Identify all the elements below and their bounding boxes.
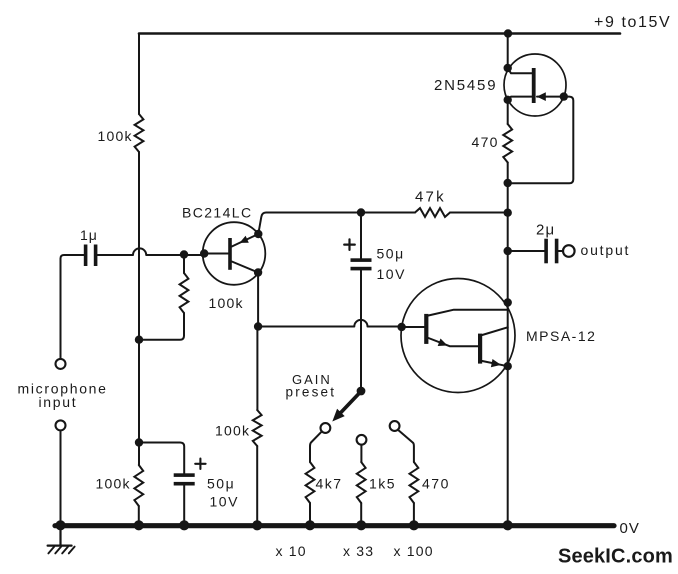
svg-text:2N5459: 2N5459 xyxy=(434,77,497,94)
svg-text:+9 to15V: +9 to15V xyxy=(594,14,671,31)
2N5459 gate lead with arrow xyxy=(537,96,564,98)
svg-text:1k5: 1k5 xyxy=(369,476,396,492)
net +9to15V power rail wire xyxy=(139,32,620,35)
wire bottom-left resistor to 0V rail xyxy=(138,506,140,523)
svg-text:10V: 10V xyxy=(377,266,406,282)
svg-text:100k: 100k xyxy=(98,128,133,144)
transistor BC214LC base bar xyxy=(228,238,232,270)
BC214LC collector lead xyxy=(232,262,258,273)
MPSA-12 Q1 emitter lead with arrow xyxy=(428,338,478,346)
wire 50u bottom lead down to preset wiper xyxy=(360,270,362,387)
svg-text:2μ: 2μ xyxy=(536,222,555,239)
resistor 1k5 xyxy=(357,462,366,503)
ground chassis symbol xyxy=(48,526,75,554)
capacitor 50u upper plates xyxy=(351,258,372,262)
wire rail drop to JFET drain xyxy=(507,34,509,69)
svg-text:100k: 100k xyxy=(209,295,244,311)
wire BC214LC collector down to node xyxy=(257,273,259,327)
capacitor 50u 10V (upper) top lead xyxy=(360,213,362,259)
svg-text:preset: preset xyxy=(286,385,337,400)
capacitor 2u output plates xyxy=(544,239,548,264)
junction preset wiper xyxy=(357,387,366,396)
terminal tap x33 xyxy=(357,435,367,445)
MPSA-12 Q2 emitter lead with arrow xyxy=(482,361,508,366)
wire C1 to BC214LC base (hop over bus) xyxy=(97,248,204,255)
resistor 470 (x100 tap) xyxy=(410,462,419,503)
svg-text:470: 470 xyxy=(472,134,499,150)
svg-text:MPSA-12: MPSA-12 xyxy=(526,328,596,344)
resistor 47k xyxy=(415,208,450,217)
svg-text:input: input xyxy=(39,394,78,410)
wire cap to output terminal xyxy=(558,250,562,252)
transistor MPSA-12 darlington body circle xyxy=(401,279,515,393)
svg-text:50μ: 50μ xyxy=(207,476,235,492)
wire 100k to 0V xyxy=(256,446,258,523)
svg-text:470: 470 xyxy=(422,476,450,492)
wire mic top terminal to C1 xyxy=(61,255,84,359)
wire MPSA-12 base lead xyxy=(402,326,425,328)
wire BC214LC base lead xyxy=(204,253,228,255)
resistor 4k7 xyxy=(306,462,315,503)
wire 1k5 to 0V xyxy=(360,503,362,523)
wire 470 to 0V xyxy=(413,503,415,523)
svg-text:x 33: x 33 xyxy=(343,543,374,559)
svg-text:4k7: 4k7 xyxy=(316,476,343,492)
wire node to 47k xyxy=(361,212,415,214)
MPSA-12 Q2 base bar xyxy=(478,334,482,364)
svg-text:1μ: 1μ xyxy=(80,227,98,243)
terminal output xyxy=(563,245,575,257)
svg-text:100k: 100k xyxy=(96,476,131,492)
net 0V ground rail xyxy=(55,523,614,528)
svg-text:50μ: 50μ xyxy=(377,246,405,262)
wire left bus to 50u (lower) xyxy=(139,443,184,474)
wire left vertical bus down to bottom resistor xyxy=(138,152,140,465)
svg-text:x 10: x 10 xyxy=(276,543,307,559)
wire BC214LC emitter up to feedback node xyxy=(258,213,361,235)
transistor 2N5459 JFET body circle xyxy=(504,54,566,116)
wire tap x33 to 1k5 xyxy=(360,445,362,462)
transistor Q1 BC214LC body circle xyxy=(203,222,266,285)
svg-text:0V: 0V xyxy=(620,520,640,537)
svg-text:100k: 100k xyxy=(215,423,250,439)
resistor 100k (bottom left) xyxy=(134,465,143,506)
terminal tap x100 xyxy=(390,421,400,431)
terminal tap x10 xyxy=(321,423,331,433)
wire node to MPSA-12 base (hop over preset line) xyxy=(258,320,402,327)
MPSA-12 Q2 collector lead xyxy=(482,327,508,335)
wire tap x100 to 470 xyxy=(398,430,414,462)
wire left rail drop to 100k R-top xyxy=(138,34,140,115)
resistor 100k (top left) xyxy=(135,114,144,152)
polarity + (upper 50u) xyxy=(344,239,355,250)
terminal microphone input bottom xyxy=(56,420,66,430)
2N5459 drain lead xyxy=(508,68,532,73)
wire node down to 100k xyxy=(256,327,258,411)
wire base node down to 100k (mid) xyxy=(183,255,185,274)
polarity + (lower 50u) xyxy=(195,459,205,469)
preset wiper arrow xyxy=(339,393,360,415)
BC214LC emitter lead (PNP arrow toward base) xyxy=(232,234,258,247)
2N5459 source lead xyxy=(508,97,532,100)
svg-text:BC214LC: BC214LC xyxy=(182,205,253,221)
svg-text:SeekIC.com: SeekIC.com xyxy=(558,546,673,568)
2N5459 channel bar xyxy=(532,68,536,103)
wire 4k7 to 0V xyxy=(309,503,311,523)
MPSA-12 Q1 collector lead xyxy=(428,310,507,316)
resistor 100k (middle bottom) xyxy=(253,410,262,446)
junction dots on 0V rail xyxy=(55,520,65,530)
wire tap x10 to 4k7 xyxy=(310,431,322,462)
wire 100k mid bottom to left bus xyxy=(139,313,184,340)
wire main column down xyxy=(507,163,509,524)
wire source to 470 xyxy=(507,100,509,124)
svg-text:10V: 10V xyxy=(210,494,239,510)
wire 50u lower to 0V xyxy=(183,486,185,524)
capacitor 50u 10V (lower) plates xyxy=(174,473,195,477)
junction dots (small) xyxy=(504,29,512,37)
resistor 470 (JFET source) xyxy=(503,124,512,163)
wire to output capacitor xyxy=(508,250,545,252)
MPSA-12 Q1 base bar xyxy=(424,314,428,344)
capacitor C 1u input xyxy=(84,245,88,267)
wire gate loop to source resistor bottom xyxy=(508,97,574,184)
svg-text:47k: 47k xyxy=(415,189,446,206)
terminal microphone input top xyxy=(56,359,66,369)
wire mic bottom terminal to 0V xyxy=(60,431,62,522)
wire 47k to main column xyxy=(450,212,508,214)
svg-text:x 100: x 100 xyxy=(394,543,434,559)
resistor 100k (mid) xyxy=(180,273,189,313)
svg-text:output: output xyxy=(581,242,631,258)
